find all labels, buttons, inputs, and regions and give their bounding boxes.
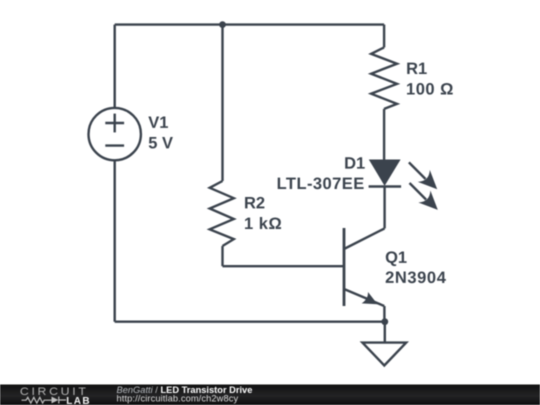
footer line 1: author / title <box>117 385 253 395</box>
wire top: V1 top to node A <box>115 23 223 25</box>
svg-text:http://circuitlab.com/ch2w8cy: http://circuitlab.com/ch2w8cy <box>117 393 239 403</box>
svg-text:LAB: LAB <box>66 396 91 405</box>
wire V1 bottom lead to bottom rail <box>113 160 115 322</box>
logo schematic line (resistor + diode) <box>22 397 67 404</box>
svg-text:LTL-307EE: LTL-307EE <box>277 175 365 193</box>
LED D1 cathode bar <box>369 185 402 187</box>
wire base: R2 to Q1 base <box>223 265 345 267</box>
voltage source V1 <box>89 108 141 160</box>
label R1 value 100 Ω <box>406 81 454 99</box>
svg-text:1 kΩ: 1 kΩ <box>244 215 282 233</box>
footer line 2: url <box>117 393 239 403</box>
label Q1 <box>385 249 407 267</box>
svg-text:R1: R1 <box>406 60 427 78</box>
ground <box>362 343 406 366</box>
svg-text:2N3904: 2N3904 <box>385 269 447 287</box>
svg-text:Q1: Q1 <box>385 249 407 267</box>
resistor R1 <box>371 47 397 109</box>
label D1 value LTL-307EE <box>277 175 365 193</box>
svg-text:5 V: 5 V <box>148 134 173 152</box>
logo LAB text <box>66 396 91 405</box>
label D1 <box>344 155 365 173</box>
LED light arrow 1 <box>409 162 437 189</box>
label R2 value 1 kΩ <box>244 215 282 233</box>
resistor R2 <box>210 181 234 246</box>
wire Q1 emitter to node B <box>383 306 385 322</box>
transistor Q1 <box>344 228 385 306</box>
LED D1 triangle <box>370 160 400 185</box>
wire V1 top lead <box>113 25 115 108</box>
node B junction dot <box>381 318 388 325</box>
svg-text:R2: R2 <box>244 194 265 212</box>
label V1 <box>148 114 168 132</box>
label Q1 value 2N3904 <box>385 269 447 287</box>
wire bottom rail <box>115 321 385 323</box>
wire R1 top lead <box>383 25 385 48</box>
svg-text:100 Ω: 100 Ω <box>406 81 454 99</box>
label R2 <box>244 194 265 212</box>
wire D1 cathode to Q1 collector <box>383 187 385 229</box>
wire node B to ground <box>384 322 386 343</box>
wire R2 bottom lead <box>221 246 223 266</box>
label R1 <box>406 60 427 78</box>
LED light arrow 2 <box>410 183 438 210</box>
label V1 value 5 V <box>148 134 173 152</box>
node A junction dot <box>219 21 226 28</box>
wire R1 bottom lead to D1 anode <box>383 109 385 160</box>
svg-text:D1: D1 <box>344 155 365 173</box>
wire top: node A to R1 top <box>223 23 385 25</box>
svg-text:V1: V1 <box>148 114 168 132</box>
logo CIRCUIT text <box>20 385 89 397</box>
wire R2 top lead (node A down) <box>221 25 223 181</box>
